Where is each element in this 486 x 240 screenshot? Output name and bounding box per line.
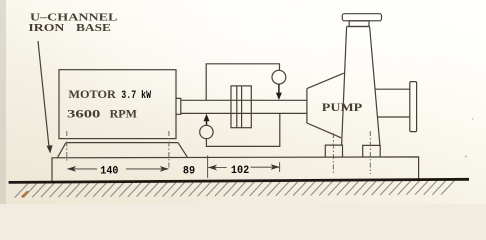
extension line dim140 right	[168, 131, 170, 168]
motor body	[59, 70, 176, 139]
svg-text:3.7 kW: 3.7 kW	[121, 90, 151, 102]
ground hatching	[15, 181, 455, 198]
dimension 102	[208, 164, 280, 177]
pump body	[307, 73, 344, 138]
svg-text:89: 89	[183, 166, 195, 178]
shaft	[181, 100, 307, 113]
dial indicator upper	[272, 70, 286, 84]
svg-text:MOTOR: MOTOR	[68, 87, 116, 101]
extension line dim102 left	[207, 156, 209, 179]
motor foot cradle	[58, 143, 188, 158]
extension line dim140 left	[66, 131, 68, 162]
centerline right foot	[369, 131, 371, 174]
base block	[52, 157, 419, 182]
leader line to base	[38, 41, 53, 154]
lower indicator bracket	[206, 113, 279, 146]
dial indicator lower	[200, 125, 213, 138]
scan speck right	[465, 156, 467, 158]
svg-text:102: 102	[231, 165, 249, 177]
ground line	[9, 179, 469, 182]
svg-text:140: 140	[100, 166, 118, 178]
discharge neck	[349, 21, 369, 27]
lower indicator arrow	[204, 114, 210, 125]
dimension 140	[67, 166, 169, 178]
upper indicator bracket	[206, 64, 279, 101]
coupling	[231, 86, 251, 128]
suction pipe	[375, 89, 410, 117]
left scan edge shading	[0, 0, 6, 204]
centerline left foot	[332, 133, 334, 174]
pump foot right	[363, 145, 381, 157]
svg-text:RPM: RPM	[110, 106, 137, 120]
pump discharge column	[342, 27, 380, 146]
svg-text:3600: 3600	[67, 106, 100, 120]
scan artifact mark bottom-left	[23, 192, 28, 197]
motor shaft boss	[176, 98, 181, 114]
svg-text:PUMP: PUMP	[322, 100, 362, 114]
svg-text:BASE: BASE	[76, 22, 111, 34]
label U-CHANNEL IRON BASE	[28, 12, 117, 34]
extension line dim102 right	[279, 162, 281, 172]
scan speck far right	[472, 118, 474, 120]
pump foot left	[325, 145, 342, 157]
discharge top flange	[342, 14, 381, 21]
upper indicator arrow	[276, 84, 282, 100]
suction flange	[410, 82, 417, 132]
svg-text:IRON: IRON	[28, 22, 64, 34]
